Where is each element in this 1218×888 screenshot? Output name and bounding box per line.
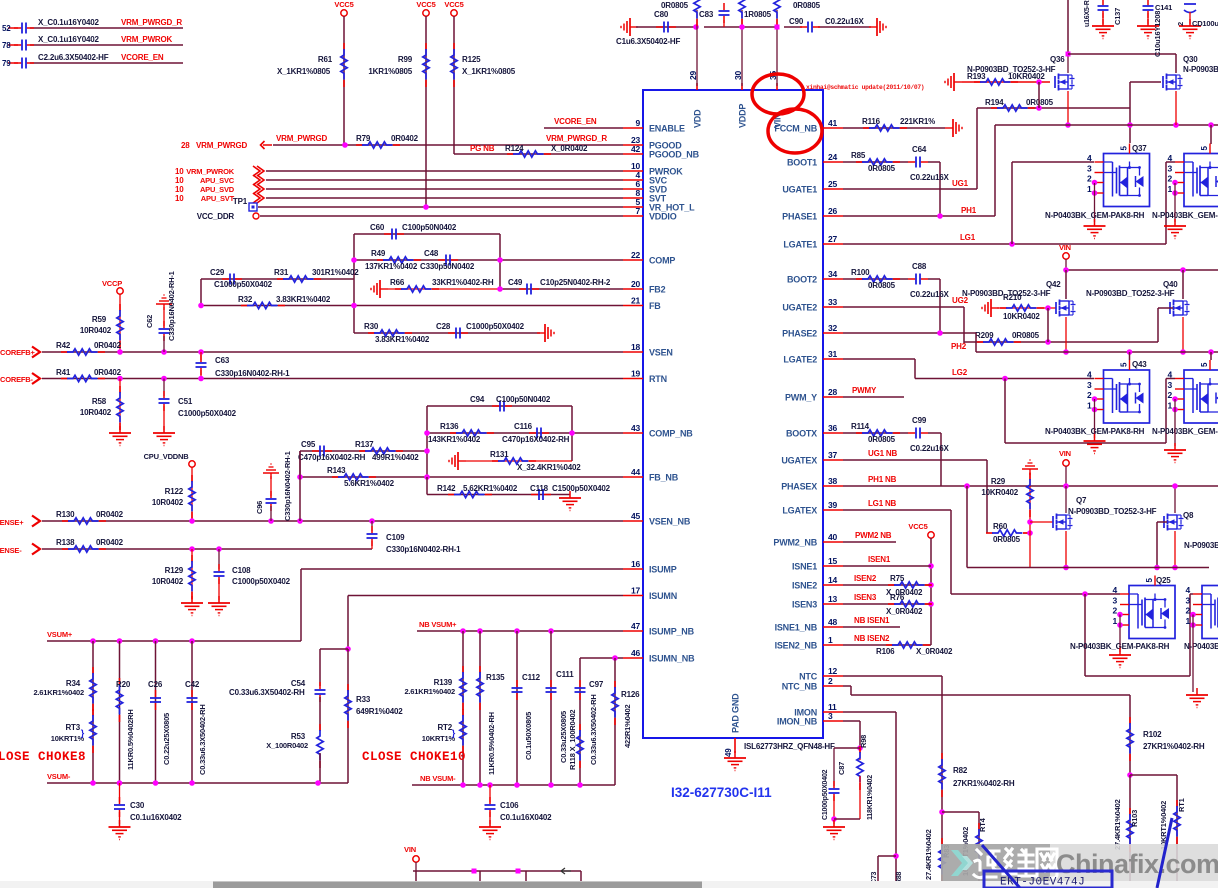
svg-text:0R0805: 0R0805 <box>868 435 896 444</box>
svg-text:2: 2 <box>828 676 833 686</box>
annotation CLOSE CHOKE8 <box>0 750 86 764</box>
capacitor C62 <box>145 271 176 352</box>
svg-text:143KR1%0402: 143KR1%0402 <box>428 435 481 444</box>
net label VSUM+ <box>47 630 73 639</box>
pin 6 SVD <box>623 179 668 195</box>
wire C95 row <box>300 448 430 477</box>
svg-text:26: 26 <box>828 206 838 216</box>
pin 36 BOOTX <box>786 423 843 439</box>
svg-text:N-P0903BD: N-P0903BD <box>1184 541 1218 550</box>
pin 49 PAD GND <box>724 693 741 757</box>
svg-text:27: 27 <box>828 234 838 244</box>
net label NB VSUM- <box>420 774 456 783</box>
svg-text:42: 42 <box>631 144 641 154</box>
pin 12 NTC <box>799 666 843 682</box>
svg-text:VRM_PWROK: VRM_PWROK <box>186 167 235 176</box>
wire <box>266 197 623 199</box>
svg-text:Q7: Q7 <box>1076 496 1087 505</box>
capacitor input row 3 <box>2 58 34 69</box>
wire pin38 PHASEX / VIN rail X <box>843 483 1218 567</box>
wire Q8 gate <box>1154 522 1167 570</box>
wire pin23 <box>273 144 623 146</box>
thermistor RT2 <box>422 709 466 753</box>
wire phase2 rail <box>976 349 1218 360</box>
svg-text:C1000p50X0402: C1000p50X0402 <box>232 577 291 586</box>
svg-text:IMON_NB: IMON_NB <box>777 717 818 727</box>
resistor R116 <box>862 117 935 131</box>
ground <box>1186 688 1208 708</box>
wire NTC chain down <box>941 676 943 888</box>
net label VCORE_EN <box>554 117 597 126</box>
label N-P0403BK_GEM-P <box>1152 211 1218 220</box>
resistor R100 <box>851 268 900 290</box>
resistor R142 <box>437 484 518 498</box>
capacitor C88 <box>908 262 950 299</box>
transistor Q25 GEM-PAK <box>1112 576 1175 639</box>
resistor R130 <box>56 510 124 524</box>
wire row VCORE_EN <box>8 62 183 64</box>
svg-text:X_32.4KR1%0402: X_32.4KR1%0402 <box>517 463 581 472</box>
svg-text:C60: C60 <box>370 223 385 232</box>
svg-text:C30: C30 <box>130 801 145 810</box>
svg-text:PWM_Y: PWM_Y <box>785 393 817 403</box>
svg-text:FB2: FB2 <box>649 285 666 295</box>
ground <box>1164 219 1186 239</box>
capacitor C28 <box>436 322 525 339</box>
svg-text:C80: C80 <box>654 10 669 19</box>
svg-text:N-P0903BD_TO252-3-HF: N-P0903BD_TO252-3-HF <box>1068 507 1157 516</box>
resistor R126 <box>612 658 640 785</box>
svg-text:0R0402: 0R0402 <box>96 538 124 547</box>
svg-text:UGATEX: UGATEX <box>781 456 817 466</box>
svg-text:VSEN_NB: VSEN_NB <box>649 517 691 527</box>
svg-text:46: 46 <box>631 648 641 658</box>
svg-text:ISEN2_NB: ISEN2_NB <box>775 641 818 651</box>
pin 9 ENABLE <box>623 118 685 134</box>
resistor R83 <box>924 829 951 882</box>
svg-text:C90: C90 <box>789 17 804 26</box>
svg-text:PGOOD_NB: PGOOD_NB <box>649 150 700 160</box>
wire <box>343 16 345 145</box>
capacitor C29 <box>210 268 273 289</box>
svg-text:C26: C26 <box>148 680 163 689</box>
wire pin3 IMON_NB <box>843 721 863 751</box>
wire Q30 source <box>1175 91 1177 125</box>
svg-text:PWM2 NB: PWM2 NB <box>855 531 892 540</box>
svg-text:3: 3 <box>828 711 833 721</box>
wire pin2 NTC_NB <box>843 686 1130 775</box>
capacitor C112 <box>512 631 541 785</box>
svg-text:48: 48 <box>828 617 838 627</box>
value label C2.2u6.3X50402-HF <box>38 53 109 62</box>
capacitor C87 <box>822 748 860 824</box>
resistor R49 <box>365 249 421 271</box>
watermark dark box <box>941 844 1050 883</box>
label N-P0403BK <box>1184 642 1218 651</box>
svg-text:28: 28 <box>828 387 838 397</box>
svg-text:VCC5: VCC5 <box>908 522 927 531</box>
svg-text:PH2: PH2 <box>951 342 967 351</box>
sheet port VSENSE- <box>0 544 40 556</box>
svg-text:10: 10 <box>175 194 184 203</box>
svg-text:N-P0403BK_GEM-P: N-P0403BK_GEM-P <box>1152 211 1218 220</box>
svg-text:1R0805: 1R0805 <box>744 10 772 19</box>
svg-text:R102: R102 <box>1143 730 1162 739</box>
wire pin42 PG_NB <box>454 153 623 155</box>
resistor R75 <box>886 574 932 597</box>
svg-text:16: 16 <box>631 559 641 569</box>
svg-text:R99: R99 <box>398 55 413 64</box>
svg-text:C0.1u16X0402: C0.1u16X0402 <box>500 813 552 822</box>
wire pin22 COMP row <box>351 257 623 263</box>
svg-text:PG NB: PG NB <box>470 144 495 153</box>
svg-text:xinhai@schmatic update(2011/10: xinhai@schmatic update(2011/10/07) <box>806 84 924 91</box>
resistor R85 <box>851 151 900 173</box>
svg-text:N-P0903BD_TO252-3-HF: N-P0903BD_TO252-3-HF <box>962 289 1051 298</box>
svg-text:C0.22u16X: C0.22u16X <box>825 17 865 26</box>
svg-text:COMP_NB: COMP_NB <box>649 429 693 439</box>
svg-text:R33: R33 <box>356 695 371 704</box>
sheet port APU_SVD <box>175 184 264 194</box>
svg-text:C95: C95 <box>301 440 316 449</box>
resistor R66 <box>388 278 500 292</box>
svg-text:C64: C64 <box>912 145 927 154</box>
pin 34 BOOT2 <box>787 269 843 285</box>
capacitor C141 <box>1137 0 1172 57</box>
svg-text:Q36: Q36 <box>1050 55 1065 64</box>
svg-text:R118 X_100R0402: R118 X_100R0402 <box>568 710 577 770</box>
pin 46 ISUMN_NB <box>623 648 695 664</box>
svg-text:X_C0.1u16Y0402: X_C0.1u16Y0402 <box>38 18 100 27</box>
wire pin13 <box>843 603 931 605</box>
svg-text:301R1%0402: 301R1%0402 <box>312 268 359 277</box>
svg-text:17: 17 <box>631 586 641 596</box>
svg-text:11KR0.5%0402RH: 11KR0.5%0402RH <box>126 709 135 770</box>
svg-text:C1000p50X0402: C1000p50X0402 <box>214 280 273 289</box>
svg-text:PHASEX: PHASEX <box>781 482 817 492</box>
svg-text:CD100u16: CD100u16 <box>1192 19 1218 28</box>
resistor R42 <box>56 341 122 355</box>
svg-text:C94: C94 <box>470 395 485 404</box>
ground <box>109 820 131 840</box>
resistor 0R0805 top3 <box>774 0 821 86</box>
wire pin16 ISUMP <box>301 569 623 641</box>
pin 7 VDDIO <box>623 206 677 222</box>
svg-text:C108: C108 <box>232 566 251 575</box>
svg-text:Q42: Q42 <box>1046 280 1061 289</box>
svg-text:CLOSE CHOKE8: CLOSE CHOKE8 <box>0 750 86 764</box>
svg-text:C470p16X0402-RH: C470p16X0402-RH <box>298 453 366 462</box>
wire pin33 UGATE2 <box>843 307 964 343</box>
svg-text:43: 43 <box>631 423 641 433</box>
svg-text:0R0402: 0R0402 <box>94 368 122 377</box>
svg-text:0R0402: 0R0402 <box>94 341 122 350</box>
svg-text:R129: R129 <box>165 566 184 575</box>
svg-text:422R1%0402: 422R1%0402 <box>623 705 632 748</box>
svg-text:21: 21 <box>631 296 641 306</box>
resistor R136 <box>428 422 494 444</box>
net label LG1 <box>960 233 976 242</box>
svg-text:X_0R0402: X_0R0402 <box>551 144 588 153</box>
svg-text:ISEN2: ISEN2 <box>854 574 877 583</box>
svg-text:1: 1 <box>1112 616 1117 626</box>
capacitor C83 <box>699 3 730 27</box>
capacitor C60 <box>370 223 457 240</box>
net label UG2 <box>952 296 969 305</box>
svg-text:VCORE_EN: VCORE_EN <box>554 117 597 126</box>
capacitor C54 <box>229 679 326 731</box>
pin 38 PHASEX <box>781 476 843 492</box>
net label NB ISEN1 <box>854 616 890 625</box>
svg-text:10: 10 <box>175 185 184 194</box>
svg-text:CPU_VDDNB: CPU_VDDNB <box>144 452 190 461</box>
svg-text:0R0402: 0R0402 <box>96 510 124 519</box>
wire pin48 <box>843 626 900 628</box>
svg-text:RT1: RT1 <box>1177 798 1186 812</box>
capacitor C42 <box>185 641 207 783</box>
svg-text:1: 1 <box>1185 616 1190 626</box>
wire top rail to Q30 <box>1068 54 1176 73</box>
svg-text:LGATE2: LGATE2 <box>783 355 817 365</box>
net label ISEN2 <box>854 574 877 583</box>
svg-text:X_C0.1u16Y0402: X_C0.1u16Y0402 <box>38 35 100 44</box>
resistor R58 <box>80 379 123 431</box>
resistor R124 <box>505 144 588 157</box>
ground <box>153 426 175 446</box>
resistor R143 <box>327 466 395 488</box>
IC label ISL62773HRZ_QFN48-HF <box>744 742 835 751</box>
svg-text:R194: R194 <box>985 98 1004 107</box>
svg-text:3: 3 <box>1185 595 1190 605</box>
svg-text:78: 78 <box>2 41 11 50</box>
svg-text:118KR1%0402: 118KR1%0402 <box>867 775 874 820</box>
mosfet label N-P0903BD_TO252-3-HF <box>967 65 1056 74</box>
svg-text:C0.22u16X: C0.22u16X <box>910 290 950 299</box>
svg-text:ISNE1: ISNE1 <box>792 562 817 572</box>
svg-text:C330p16N0402-RH-1: C330p16N0402-RH-1 <box>167 271 176 341</box>
svg-text:VSENSE+: VSENSE+ <box>0 518 24 527</box>
net label VSUM- <box>47 772 71 781</box>
pin 48 ISNE1_NB <box>775 617 843 633</box>
svg-text:C141: C141 <box>1155 3 1172 12</box>
scrollbar thumb <box>213 882 702 888</box>
svg-text:COMP: COMP <box>649 256 675 266</box>
wire R31 row <box>201 279 354 306</box>
resistor R76 <box>886 593 932 616</box>
junction <box>1002 376 1008 382</box>
svg-text:20: 20 <box>631 279 641 289</box>
resistor 0R0805 top1 <box>661 0 700 86</box>
svg-text:C28: C28 <box>436 322 451 331</box>
svg-text:ISL62773HRZ_QFN48-HF: ISL62773HRZ_QFN48-HF <box>744 742 835 751</box>
power VCC5 #1 <box>334 0 353 16</box>
resistor R103 <box>1113 799 1139 852</box>
svg-text:C49: C49 <box>508 278 523 287</box>
capacitor CD100u16 <box>1176 4 1218 39</box>
svg-text:2: 2 <box>1087 390 1092 400</box>
svg-text:R131: R131 <box>490 450 509 459</box>
svg-text:R61: R61 <box>318 55 333 64</box>
capacitor C137 <box>1084 0 1122 39</box>
svg-text:10KRT1%: 10KRT1% <box>51 734 85 743</box>
svg-text:C62: C62 <box>145 315 154 328</box>
capacitor C96 <box>255 451 292 521</box>
wire <box>266 179 623 181</box>
svg-text:4: 4 <box>1087 153 1092 163</box>
svg-text:C10p25N0402-RH-2: C10p25N0402-RH-2 <box>540 278 611 287</box>
svg-text:R125: R125 <box>462 55 481 64</box>
wire VIN bottom rail <box>413 862 581 888</box>
capacitor input row 2 <box>2 40 34 51</box>
svg-text:ENABLE: ENABLE <box>649 124 685 134</box>
pin 10 PWROK <box>623 161 683 177</box>
svg-text:Q8: Q8 <box>1183 511 1194 520</box>
svg-text:37: 37 <box>828 450 838 460</box>
wire pin19 RTN row <box>42 376 623 382</box>
svg-text:R103: R103 <box>1130 810 1139 827</box>
pin 24 BOOT1 <box>787 152 843 168</box>
svg-text:C2.2u6.3X50402-HF: C2.2u6.3X50402-HF <box>38 53 109 62</box>
svg-text:R30: R30 <box>364 322 379 331</box>
svg-text:R98: R98 <box>859 735 868 748</box>
resistor R193 <box>962 72 1050 85</box>
svg-text:52: 52 <box>2 24 11 33</box>
scrollbar track <box>0 881 1218 888</box>
svg-text:C51: C51 <box>178 397 193 406</box>
svg-text:VIN: VIN <box>1059 243 1071 252</box>
svg-text:C1000p50X0402: C1000p50X0402 <box>822 769 829 820</box>
svg-text:R126: R126 <box>621 690 640 699</box>
power VIN phaseX <box>1059 449 1071 466</box>
svg-text:LGATE1: LGATE1 <box>783 240 817 250</box>
wire pin41 <box>843 127 945 129</box>
pin 27 LGATE1 <box>783 234 843 250</box>
svg-text:C0.1u50X0805: C0.1u50X0805 <box>524 712 533 760</box>
resistor R99 <box>368 43 429 87</box>
capacitor C30 <box>114 783 182 824</box>
net label NB VSUM+ <box>419 620 457 629</box>
wire Q40 drain/source <box>1180 270 1186 355</box>
junction <box>342 142 348 148</box>
svg-text:R100: R100 <box>851 268 870 277</box>
resistor R98 <box>857 735 874 820</box>
resistor R122 <box>152 467 195 521</box>
svg-text:79: 79 <box>2 59 11 68</box>
svg-text:R31: R31 <box>274 268 289 277</box>
svg-text:VSUM+: VSUM+ <box>47 630 73 639</box>
svg-text:10R0402: 10R0402 <box>152 577 184 586</box>
svg-text:C83: C83 <box>699 10 714 19</box>
svg-text:4: 4 <box>1087 369 1092 379</box>
svg-text:2.61KR1%0402: 2.61KR1%0402 <box>404 687 455 696</box>
svg-text:X_0R0402: X_0R0402 <box>916 647 953 656</box>
svg-text:Q30: Q30 <box>1183 55 1198 64</box>
ground <box>371 280 388 298</box>
svg-text:C54: C54 <box>291 679 306 688</box>
resistor R32 <box>238 295 331 309</box>
svg-text:C99: C99 <box>912 416 927 425</box>
label N-P0403BK_GEM-PAK8-RH <box>1045 427 1145 436</box>
svg-text:5.6KR1%0402: 5.6KR1%0402 <box>344 479 395 488</box>
watermark chinafix text <box>1056 849 1218 879</box>
wire RT1 branch <box>1130 775 1177 888</box>
svg-text:1: 1 <box>1167 400 1172 410</box>
svg-text:R122: R122 <box>165 487 184 496</box>
mosfet label N-P0903BD_TO252-3-HF <box>1086 289 1175 298</box>
ground <box>945 119 962 137</box>
svg-text:47: 47 <box>631 621 641 631</box>
svg-text:BOOTX: BOOTX <box>786 429 817 439</box>
wire R142 row <box>427 477 570 495</box>
sheet port COREFB- <box>0 373 40 384</box>
svg-text:R137: R137 <box>355 440 374 449</box>
pin 14 ISNE2 <box>792 575 843 591</box>
net label VCORE_EN <box>121 53 164 62</box>
svg-text:R76: R76 <box>890 593 905 602</box>
svg-text:VRM_PWRGD_R: VRM_PWRGD_R <box>546 134 607 143</box>
svg-text:R136: R136 <box>440 422 459 431</box>
svg-text:C330p16N0402-RH-1: C330p16N0402-RH-1 <box>386 545 461 554</box>
svg-text:C109: C109 <box>386 533 405 542</box>
svg-text:3: 3 <box>1112 595 1117 605</box>
pin 44 FB_NB <box>623 467 679 483</box>
pin 26 PHASE1 <box>782 206 843 222</box>
wire pin44 FB_NB row <box>297 474 623 480</box>
pin 22 COMP <box>623 250 675 266</box>
capacitor C48 <box>420 249 475 271</box>
svg-text:R41: R41 <box>56 368 71 377</box>
resistor R29 chain <box>981 472 1033 568</box>
pin 32 PHASE2 <box>782 323 843 339</box>
svg-text:Q37: Q37 <box>1132 144 1147 153</box>
pin 8 SVT <box>623 188 667 204</box>
svg-text:UGATE1: UGATE1 <box>782 185 817 195</box>
pin 16 ISUMP <box>623 559 677 575</box>
wire VSENSE- row <box>42 546 372 552</box>
net label PH2 <box>951 342 967 351</box>
svg-text:R82: R82 <box>953 766 968 775</box>
svg-text:COREFB+: COREFB+ <box>0 348 35 357</box>
svg-text:R138: R138 <box>56 538 75 547</box>
wire Q37 pins to ground <box>1094 183 1096 222</box>
wire pin31 LGATE2 <box>843 359 1094 379</box>
wire pin24 BOOT1 <box>843 162 940 216</box>
svg-text:3.83KR1%0402: 3.83KR1%0402 <box>375 335 430 344</box>
resistor R135 <box>477 631 505 785</box>
power CPU_VDDNB <box>144 452 196 467</box>
resistor R106 <box>876 642 953 656</box>
svg-text:3: 3 <box>1167 163 1172 173</box>
svg-text:5.62KR1%0402: 5.62KR1%0402 <box>463 484 518 493</box>
svg-text:PH1 NB: PH1 NB <box>868 475 897 484</box>
wire pin20 FB2 row <box>497 286 623 292</box>
svg-text:10KR0402: 10KR0402 <box>981 488 1018 497</box>
pin 37 UGATEX <box>781 450 843 466</box>
watermark light band <box>1050 844 1218 883</box>
thermistor RT4 diagonal <box>982 845 1020 888</box>
pin 41 FCCM_NB <box>774 118 843 134</box>
svg-text:40: 40 <box>828 532 838 542</box>
svg-text:X_100R0402: X_100R0402 <box>266 741 308 750</box>
capacitor input row 1 <box>2 23 34 34</box>
svg-text:C1000p50X0402: C1000p50X0402 <box>466 322 525 331</box>
svg-text:0R0402: 0R0402 <box>391 134 419 143</box>
ground <box>109 426 131 446</box>
sheet port 28 VRM_PWRGD <box>181 141 272 150</box>
svg-text:R106: R106 <box>876 647 895 656</box>
pin 19 RTN <box>623 369 667 385</box>
mosfet label N-P0903BD_TO252-3-HF <box>962 289 1051 298</box>
